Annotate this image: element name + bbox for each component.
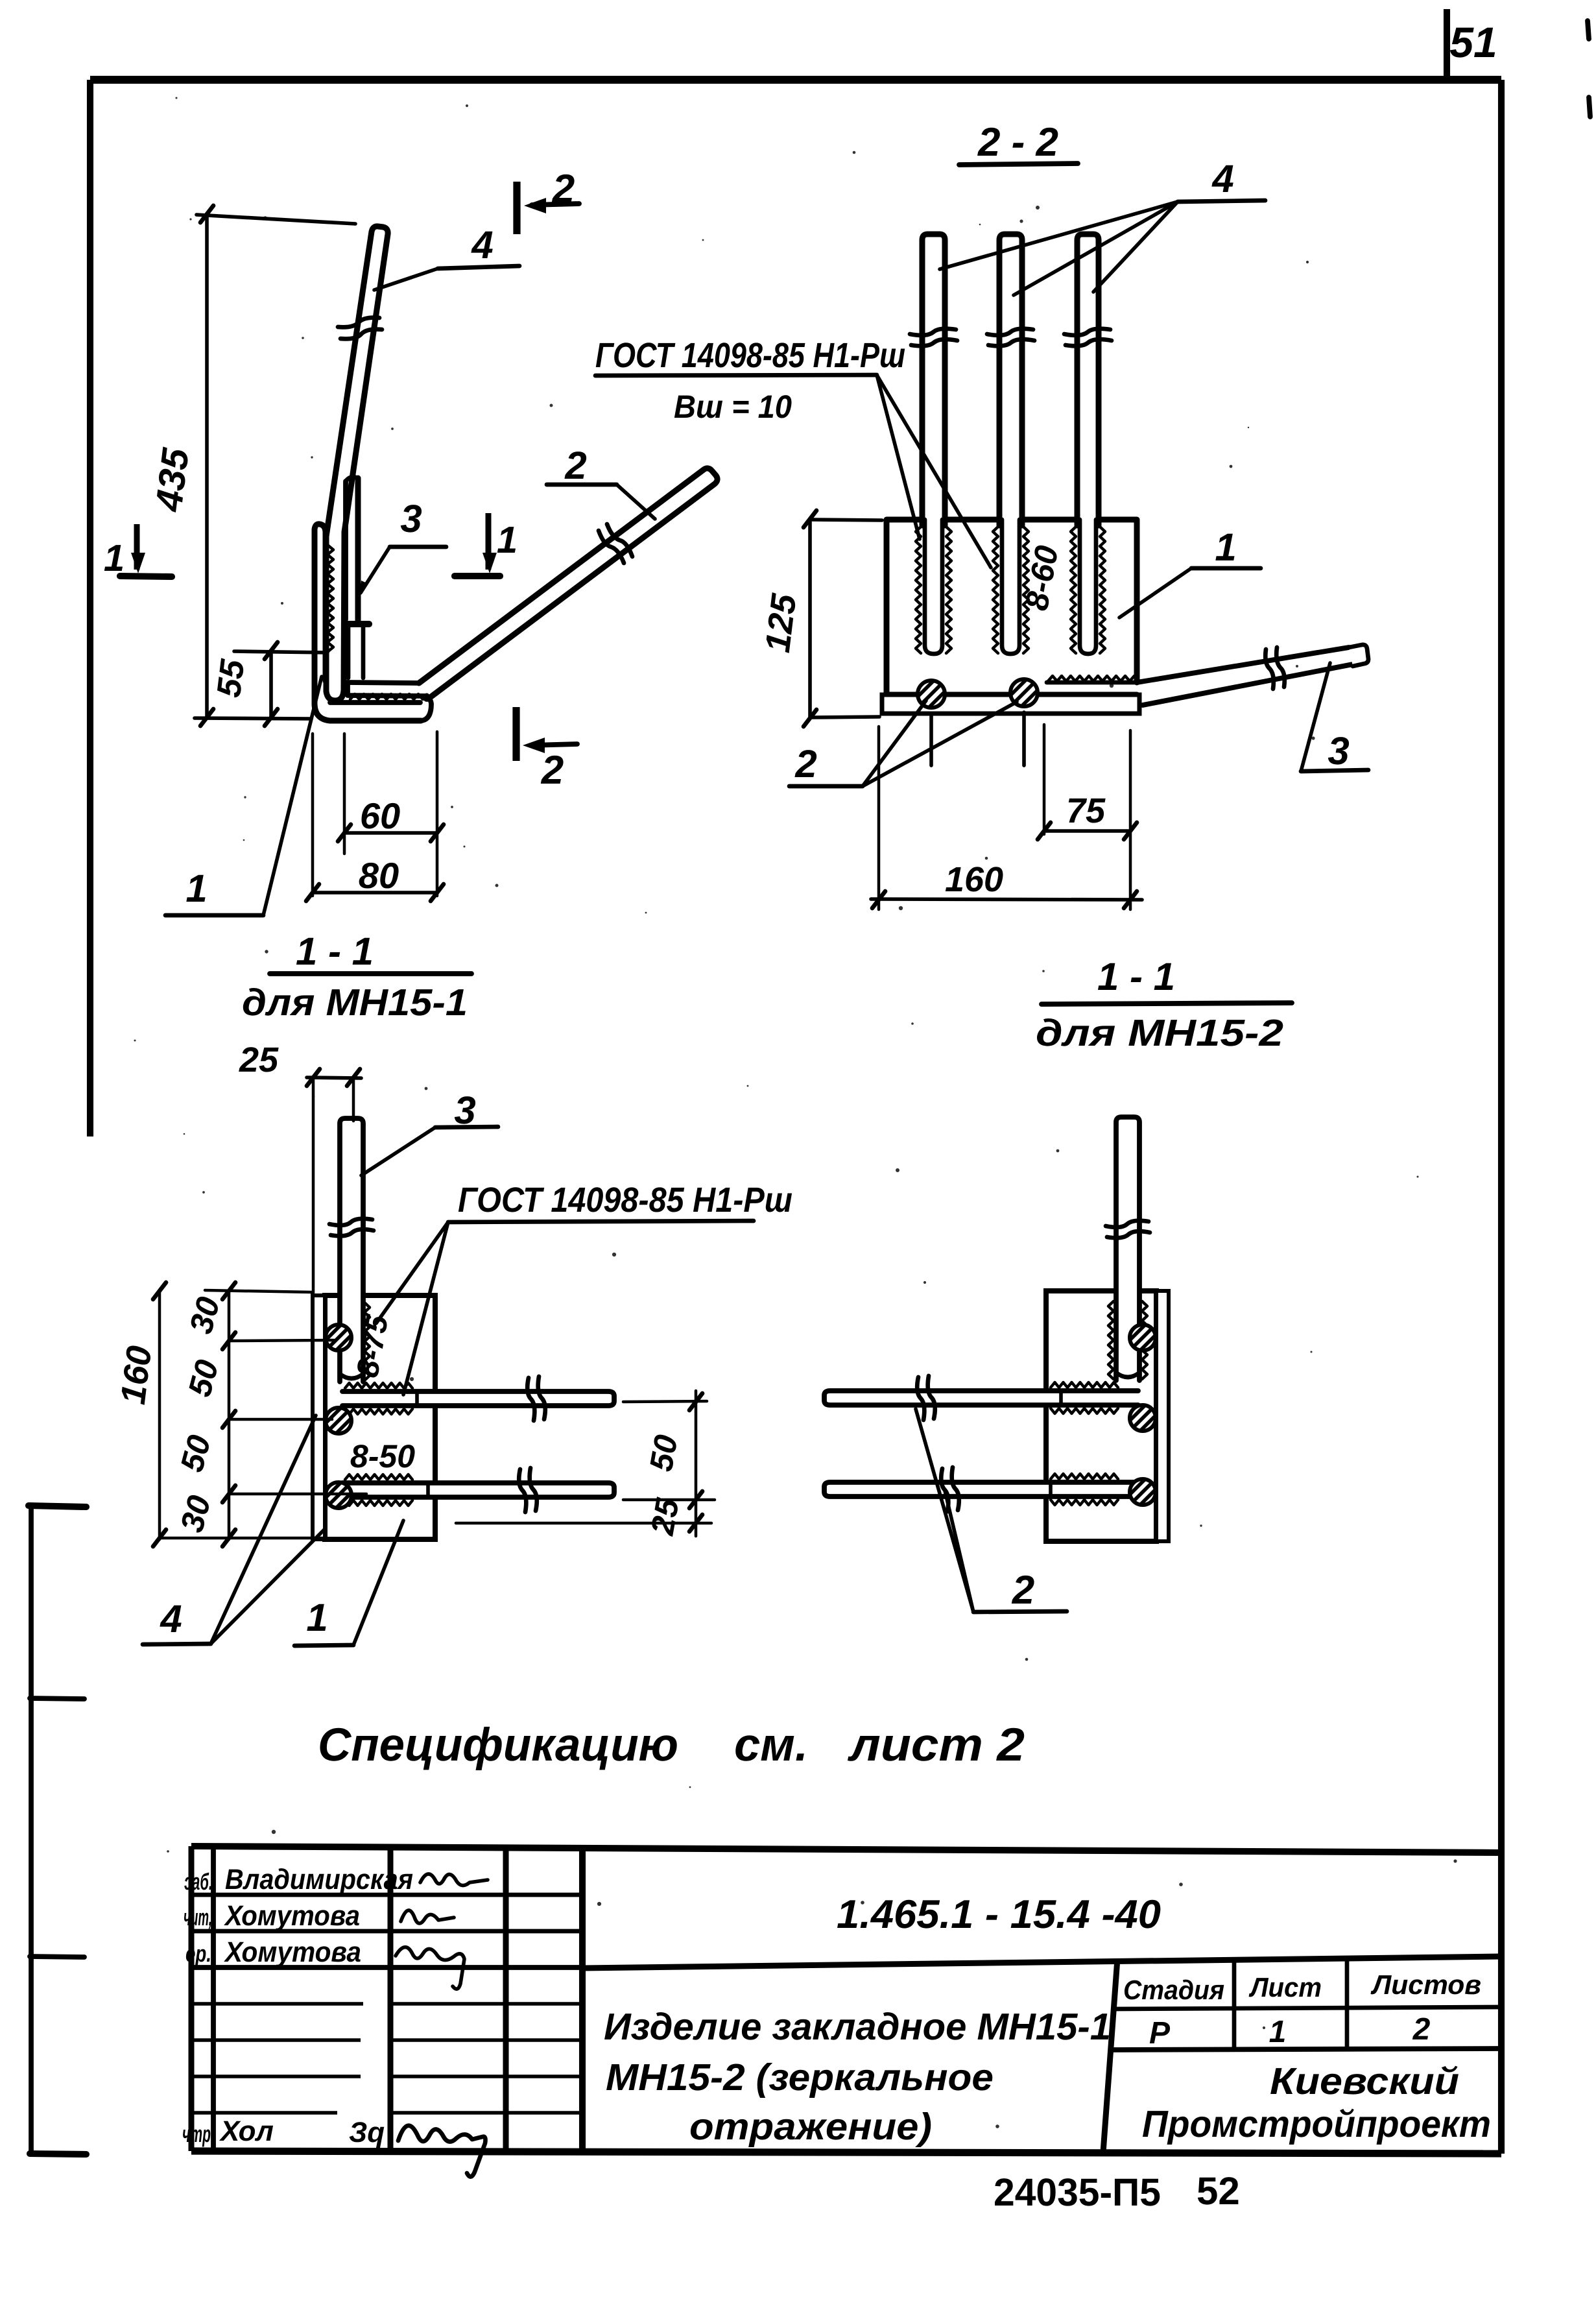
svg-text:ер.: ер. bbox=[185, 1940, 211, 1967]
rod 2 diagonal portion bbox=[419, 468, 717, 699]
svg-text:Промстройпроект: Промстройпроект bbox=[1142, 2103, 1491, 2145]
dimension 25 top bbox=[312, 1077, 315, 1295]
break mark on rod 2 bbox=[607, 524, 632, 557]
svg-text:8-50: 8-50 bbox=[350, 1438, 415, 1474]
stage table row line bbox=[1112, 2049, 1501, 2050]
svg-text:75: 75 bbox=[1066, 791, 1106, 830]
signature row1 bbox=[420, 1874, 488, 1886]
break mark rod 3 mirrored bbox=[1106, 1221, 1149, 1227]
doc number band bottom line bbox=[582, 1956, 1501, 1968]
svg-text:отражение): отражение) bbox=[689, 2106, 932, 2148]
stage table vertical list bbox=[1232, 1958, 1237, 2049]
title block vertical v1 bbox=[211, 1846, 216, 2151]
svg-text:51: 51 bbox=[1449, 18, 1497, 66]
title block row line r3 bbox=[191, 1965, 582, 1970]
svg-text:125: 125 bbox=[758, 591, 804, 655]
signature row3 bbox=[396, 1947, 464, 1989]
weld seams upper rod mirrored bbox=[1051, 1382, 1118, 1388]
title block vertical v2 names bbox=[388, 1846, 394, 2151]
svg-text:Р: Р bbox=[1149, 2016, 1171, 2050]
svg-text:1: 1 bbox=[185, 867, 207, 910]
title block left edge bbox=[189, 1846, 195, 2151]
lower rod 2 mirrored bbox=[824, 1482, 1138, 1497]
weld circle 2 plan bbox=[326, 1408, 351, 1434]
scan edge marks right bbox=[1588, 21, 1589, 39]
svg-text:2: 2 bbox=[552, 167, 575, 211]
svg-text:2: 2 bbox=[541, 748, 564, 793]
svg-text:Лист: Лист bbox=[1248, 1972, 1322, 2002]
break mark on exiting rod 3 bbox=[1276, 647, 1285, 687]
svg-text:Спецификацию: Спецификацию bbox=[318, 1719, 678, 1771]
svg-text:Стадия: Стадия bbox=[1123, 1975, 1224, 2005]
svg-text:ɔаб.: ɔаб. bbox=[184, 1868, 213, 1895]
title block row line r5 bbox=[191, 2038, 361, 2042]
dimension 80 bbox=[313, 891, 437, 895]
anchor rod 4 number 2 in section 2-2 bbox=[999, 234, 1022, 525]
title block vertical v3 signatures bbox=[503, 1846, 509, 2151]
angle piece 1 vertical leg bbox=[315, 524, 326, 704]
svg-text:2: 2 bbox=[564, 444, 586, 487]
svg-text:25: 25 bbox=[239, 1040, 279, 1079]
signature row2 bbox=[401, 1910, 454, 1923]
svg-text:для МН15-1: для МН15-1 bbox=[242, 981, 468, 1024]
fold tick 1 bbox=[29, 1506, 86, 1507]
dimension 55 bbox=[269, 651, 273, 717]
svg-text:ГОСТ 14098-85 Н1-Рш: ГОСТ 14098-85 Н1-Рш bbox=[595, 336, 905, 375]
stage table vertical listov bbox=[1345, 1957, 1350, 2049]
svg-text:1: 1 bbox=[1215, 525, 1236, 569]
rod 2 bent end strip on bottom leg bbox=[348, 682, 419, 683]
break on lower rod 2 bbox=[530, 1468, 537, 1511]
section mark 1 left bbox=[134, 524, 140, 570]
title block row line r7 bbox=[191, 2111, 337, 2115]
rod 2 embedded part with weld grooves bbox=[1002, 520, 1019, 654]
plate element 1 body bbox=[887, 520, 1137, 695]
sheet number cell divider bbox=[1444, 9, 1450, 80]
right dimension 50 and 25 bbox=[623, 1401, 707, 1402]
svg-text:80: 80 bbox=[359, 855, 399, 896]
page frame right border bbox=[1498, 80, 1505, 2154]
svg-text:3: 3 bbox=[1328, 729, 1349, 773]
svg-text:Изделие закладное МН15-1: Изделие закладное МН15-1 bbox=[604, 2006, 1111, 2048]
svg-text:Хомутова: Хомутова bbox=[223, 1936, 361, 1968]
title block vertical v4 thick bbox=[579, 1846, 586, 2151]
rod 1 embedded part with weld grooves bbox=[925, 520, 942, 654]
svg-text:1 - 1: 1 - 1 bbox=[1097, 955, 1175, 998]
svg-text:для МН15-2: для МН15-2 bbox=[1036, 1012, 1283, 1054]
svg-text:Листов: Листов bbox=[1370, 1969, 1481, 2000]
section mark 2 bottom bbox=[512, 707, 519, 761]
title block outer top line bbox=[191, 1846, 1501, 1853]
svg-text:ГОСТ 14098-85 Н1-Рш: ГОСТ 14098-85 Н1-Рш bbox=[458, 1181, 792, 1220]
anchor rod 4 number 3 in section 2-2 bbox=[1077, 234, 1099, 525]
weld seam between leg and rod 4 bbox=[328, 545, 333, 652]
rod 3 bottom cap bbox=[346, 621, 369, 627]
dimension 160 in section 2-2 bbox=[877, 727, 881, 909]
title block row line r6 bbox=[191, 2075, 361, 2078]
svg-text:1 - 1: 1 - 1 bbox=[296, 930, 374, 973]
rod 3 vertical mirrored bbox=[1116, 1117, 1139, 1380]
svg-text:1: 1 bbox=[497, 519, 518, 561]
svg-text:2: 2 bbox=[794, 742, 816, 786]
weld circle 1 plan bbox=[326, 1325, 351, 1351]
weld circle 1 mirrored bbox=[1130, 1325, 1156, 1351]
signature bottom bbox=[398, 2126, 486, 2177]
svg-text:25: 25 bbox=[644, 1495, 686, 1539]
svg-text:1: 1 bbox=[104, 537, 125, 579]
svg-text:1.465.1 - 15.4 -40: 1.465.1 - 15.4 -40 bbox=[837, 1892, 1161, 1937]
weld circle 3 mirrored bbox=[1130, 1479, 1156, 1505]
rod 3 embedded part with weld grooves bbox=[1080, 520, 1096, 654]
angle piece 1 corner and bottom leg bbox=[315, 704, 421, 721]
plate element 1 plan bbox=[325, 1295, 435, 1539]
break lower rod mirrored bbox=[952, 1467, 959, 1510]
weld circle middle in section 2-2 bbox=[1010, 679, 1038, 706]
section mark 2 top bbox=[513, 182, 520, 234]
weld seam under rod 2 strip bbox=[350, 694, 423, 699]
lower rod 2 in plan bbox=[342, 1483, 614, 1497]
angle leg edge strip plan bbox=[313, 1295, 325, 1539]
title block row line r4 bbox=[191, 2002, 363, 2006]
svg-text:чит,: чит, bbox=[184, 1904, 212, 1930]
svg-text:160: 160 bbox=[113, 1343, 160, 1406]
svg-text:24035-П5: 24035-П5 bbox=[994, 2171, 1161, 2214]
break mark on rod 4 bbox=[338, 318, 379, 328]
break mark on rod 1 bbox=[910, 329, 956, 335]
svg-text:52: 52 bbox=[1197, 2169, 1240, 2213]
dimension 435 vertical bbox=[205, 214, 209, 717]
angle piece 1 upturned lip bbox=[421, 698, 431, 721]
svg-text:160: 160 bbox=[945, 860, 1003, 899]
svg-text:3: 3 bbox=[400, 497, 422, 540]
section mark 1 right bbox=[486, 513, 492, 570]
svg-text:55: 55 bbox=[210, 657, 252, 700]
anchor rod 4 number 1 in section 2-2 bbox=[922, 234, 945, 525]
svg-text:чтр: чтр bbox=[182, 2121, 211, 2147]
weld seams upper rod bbox=[345, 1383, 412, 1388]
dimension 125 bbox=[808, 519, 812, 718]
rod 4 tilted upper part bbox=[326, 226, 388, 536]
svg-text:Вш = 10: Вш = 10 bbox=[674, 389, 792, 425]
break upper rod mirrored bbox=[928, 1376, 935, 1419]
rod 3 exiting right in section 2-2 bbox=[1137, 647, 1349, 682]
title block bottom line bbox=[191, 2151, 1501, 2154]
svg-text:50: 50 bbox=[643, 1432, 685, 1474]
svg-text:435: 435 bbox=[147, 446, 197, 514]
notch line in plate for exiting rod bbox=[1047, 680, 1137, 685]
svg-text:4: 4 bbox=[160, 1597, 182, 1641]
svg-text:Киевский: Киевский bbox=[1270, 2060, 1459, 2102]
weld circle 2 mirrored bbox=[1130, 1405, 1156, 1431]
weld seams lower rod mirrored bbox=[1051, 1474, 1118, 1479]
svg-text:Хол: Хол bbox=[219, 2115, 274, 2147]
fold tick 4 bbox=[30, 2154, 86, 2154]
plate base strip bbox=[882, 695, 1139, 714]
weld groove right of rod 3 bbox=[364, 1303, 370, 1380]
scan speckles bbox=[550, 404, 553, 407]
svg-text:4: 4 bbox=[1211, 157, 1233, 200]
rod 3 short vertical rod bbox=[355, 478, 361, 621]
svg-text:60: 60 bbox=[360, 795, 400, 836]
weld seams lower rod bbox=[345, 1474, 412, 1480]
weld grooves rod 3 mirrored bbox=[1108, 1301, 1114, 1379]
svg-text:1: 1 bbox=[306, 1596, 328, 1639]
upper rod 2 in plan bbox=[342, 1391, 614, 1406]
plate element 1 plan mirrored bbox=[1046, 1291, 1156, 1541]
fold tick 2 bbox=[30, 1698, 84, 1699]
svg-text:МН15-2 (зеркальное: МН15-2 (зеркальное bbox=[606, 2056, 994, 2099]
svg-text:2: 2 bbox=[1412, 2012, 1431, 2047]
svg-text:1: 1 bbox=[1269, 2015, 1287, 2049]
weld circle left in section 2-2 bbox=[918, 680, 945, 708]
angle leg edge strip plan mirrored bbox=[1156, 1291, 1169, 1541]
page frame top border bbox=[90, 76, 1501, 84]
weld circle 3 plan bbox=[326, 1482, 351, 1508]
dimension chain 30-50-50-30 bbox=[158, 1290, 161, 1539]
rod 3 vertical in plan bbox=[340, 1118, 363, 1382]
svg-text:см.: см. bbox=[734, 1719, 808, 1771]
dimension 60 bbox=[343, 734, 346, 854]
title block row line r1 bbox=[191, 1893, 582, 1897]
svg-text:4: 4 bbox=[471, 223, 493, 267]
svg-text:Владимирская: Владимирская bbox=[225, 1864, 413, 1895]
fold mark line left margin bbox=[29, 1505, 34, 2155]
title block row line r2 bbox=[191, 1929, 582, 1934]
svg-text:Зq: Зq bbox=[349, 2117, 385, 2148]
break mark on rod 3 bbox=[1064, 329, 1110, 335]
rod 4 vertical lower part bbox=[326, 532, 344, 701]
svg-text:лист 2: лист 2 bbox=[848, 1719, 1025, 1771]
weld seam on base strip right bbox=[1048, 676, 1139, 681]
svg-text:Хомутова: Хомутова bbox=[223, 1900, 360, 1932]
break mark on rod 2 bbox=[987, 329, 1033, 335]
svg-text:2 - 2: 2 - 2 bbox=[977, 120, 1058, 165]
upper rod 2 mirrored bbox=[824, 1391, 1138, 1405]
fold tick 3 bbox=[30, 1956, 84, 1957]
break on upper rod 2 bbox=[538, 1377, 545, 1419]
rod 3 end cap section 2-2 bbox=[1349, 645, 1368, 666]
svg-text:2: 2 bbox=[1012, 1568, 1034, 1613]
stage table header underline bbox=[1114, 2007, 1501, 2009]
page frame left border bbox=[87, 80, 93, 1136]
stage table left slanted line bbox=[1103, 1959, 1117, 2152]
break mark on rod 3 plan bbox=[329, 1219, 372, 1225]
dimension 75 bbox=[1043, 725, 1046, 834]
